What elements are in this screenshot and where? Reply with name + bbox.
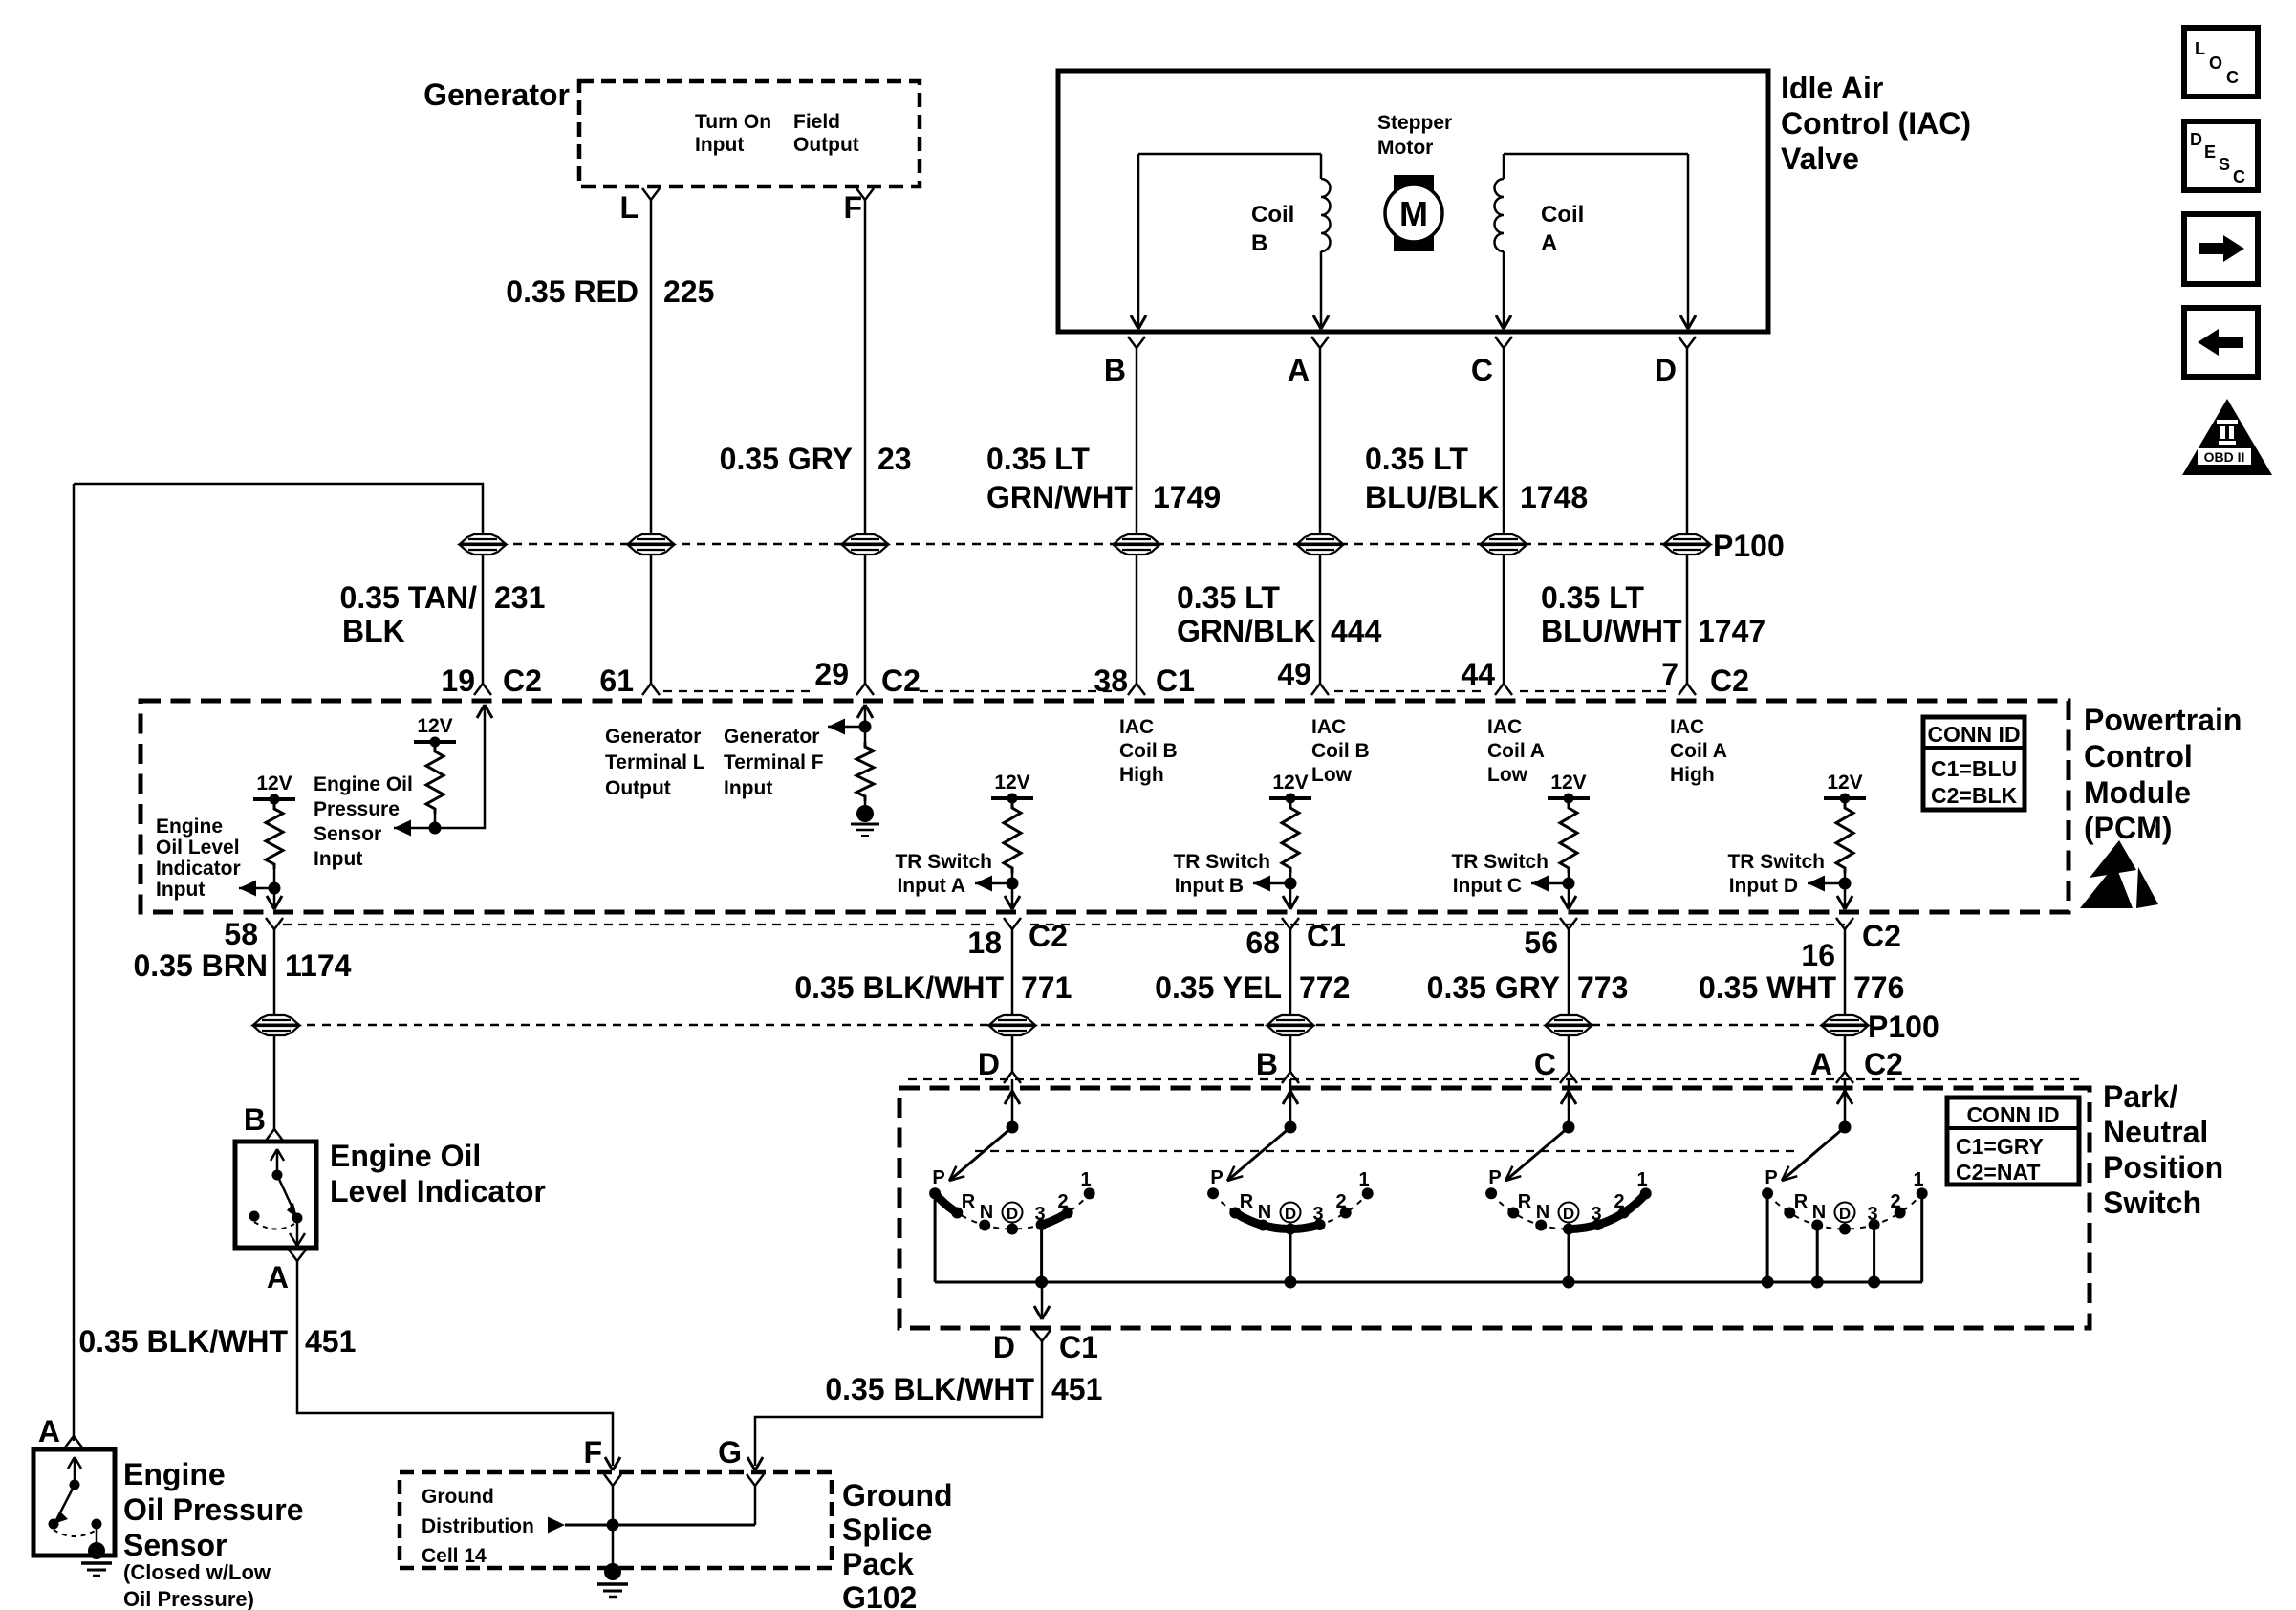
coil A top wire xyxy=(1504,153,1688,156)
svg-text:7: 7 xyxy=(1661,657,1679,691)
rotary switch B (pin 68) xyxy=(1207,1079,1374,1289)
svg-text:F: F xyxy=(843,190,862,225)
12V rail (pressure sensor pull-up) xyxy=(414,715,456,748)
svg-text:Engine Oil: Engine Oil xyxy=(314,773,413,795)
svg-text:12V: 12V xyxy=(417,715,452,737)
svg-text:C2: C2 xyxy=(1710,664,1749,698)
svg-text:68: 68 xyxy=(1245,925,1280,960)
junction TR switch input C xyxy=(1563,878,1575,890)
arrow TR Switch Input B xyxy=(1253,876,1270,892)
svg-text:0.35 BLK/WHT: 0.35 BLK/WHT xyxy=(78,1324,288,1359)
svg-text:2: 2 xyxy=(1057,1191,1068,1212)
svg-text:Ground: Ground xyxy=(422,1486,494,1508)
internal ground (terminal F) xyxy=(851,805,879,836)
svg-text:Position: Position xyxy=(2103,1150,2223,1185)
svg-text:High: High xyxy=(1119,764,1164,786)
svg-text:N: N xyxy=(1536,1202,1549,1223)
fork PNP pin C xyxy=(1560,1072,1577,1083)
svg-text:IAC: IAC xyxy=(1670,716,1704,738)
svg-text:19: 19 xyxy=(441,664,475,698)
svg-text:0.35 GRY: 0.35 GRY xyxy=(720,442,853,476)
arrow TR Switch Input C xyxy=(1531,876,1549,892)
svg-text:0.35 BRN: 0.35 BRN xyxy=(134,948,269,983)
svg-text:TR Switch: TR Switch xyxy=(1451,851,1549,873)
wire to terminal F arrow xyxy=(828,726,865,729)
svg-text:Oil Pressure: Oil Pressure xyxy=(123,1492,304,1527)
svg-text:49: 49 xyxy=(1277,657,1311,691)
coil A right wire xyxy=(1687,154,1690,326)
wire oil level pull-up to pin 58 xyxy=(273,869,276,909)
coil A left wire xyxy=(1503,251,1505,326)
svg-text:C2: C2 xyxy=(1029,919,1068,953)
arrowhead down to pin 58 xyxy=(267,896,282,909)
svg-text:BLU/WHT: BLU/WHT xyxy=(1541,614,1682,648)
svg-text:Input C: Input C xyxy=(1453,875,1522,897)
svg-text:C1=GRY: C1=GRY xyxy=(1956,1134,2044,1159)
svg-text:12V: 12V xyxy=(256,772,292,794)
svg-text:3: 3 xyxy=(1867,1204,1877,1225)
icon LOC xyxy=(2184,28,2258,97)
svg-text:R: R xyxy=(1518,1191,1532,1212)
connector P100 pass-through (circuit 1748) xyxy=(1481,534,1527,555)
wire to oil level input arrow xyxy=(239,887,274,890)
svg-text:231: 231 xyxy=(494,580,545,615)
12V rail (TR input B pull-up) xyxy=(1269,772,1311,804)
wire 451 BLK/WHT (PNP D to G102 G) xyxy=(755,1341,1042,1466)
svg-text:Oil Level: Oil Level xyxy=(156,837,240,859)
svg-text:Pressure: Pressure xyxy=(314,798,400,820)
indicator internal switch xyxy=(249,1149,306,1246)
wire to TR input B arrow xyxy=(1253,882,1290,885)
12V rail (oil level pull-up) xyxy=(253,772,295,805)
svg-text:N: N xyxy=(1258,1202,1271,1223)
fork G102 terminal F xyxy=(604,1474,621,1486)
svg-text:56: 56 xyxy=(1524,925,1558,960)
svg-text:P: P xyxy=(1765,1167,1777,1188)
svg-text:3: 3 xyxy=(1591,1204,1601,1225)
svg-text:61: 61 xyxy=(599,664,634,698)
junction pressure sensor input xyxy=(429,822,442,835)
wire 231 TAN/BLK upper run xyxy=(74,484,483,685)
ground xyxy=(81,1542,112,1576)
park/neutral position switch box xyxy=(899,1088,2090,1328)
wire 776 WHT (pin 16 to PNP A) xyxy=(1844,929,1847,1073)
connector P100 pass-through (circuit 444) xyxy=(1297,534,1343,555)
svg-text:(Closed w/Low: (Closed w/Low xyxy=(123,1560,271,1584)
fork pin 16 xyxy=(1836,918,1853,929)
P100 connector dashed line (row 2) xyxy=(276,1024,1850,1027)
svg-text:M: M xyxy=(1399,194,1428,233)
fork pin 29 xyxy=(856,684,874,695)
svg-text:C1=BLU: C1=BLU xyxy=(1931,756,2017,781)
coil A inductor lead xyxy=(1503,154,1505,179)
fork pin 18 xyxy=(1004,918,1021,929)
pressure sensor internal switch xyxy=(49,1457,102,1545)
P100 connector dashed line (row 1) xyxy=(483,543,1694,546)
svg-text:Coil B: Coil B xyxy=(1119,740,1178,762)
svg-text:12V: 12V xyxy=(1550,772,1586,794)
svg-text:BLU/BLK: BLU/BLK xyxy=(1365,480,1499,514)
svg-text:225: 225 xyxy=(663,274,714,309)
splice wire xyxy=(565,1524,755,1527)
svg-text:C1: C1 xyxy=(1059,1330,1098,1364)
junction TR switch input B xyxy=(1285,878,1297,890)
svg-text:P100: P100 xyxy=(1713,529,1785,563)
fork pin 19 xyxy=(474,684,491,695)
wire 1174 BRN (pin 58 to indicator B) xyxy=(273,929,276,1130)
svg-text:1749: 1749 xyxy=(1153,480,1221,514)
fork PNP pin D xyxy=(1004,1072,1021,1083)
fork PNP pin A xyxy=(1836,1072,1853,1083)
arrowhead down TR A xyxy=(1005,896,1020,909)
svg-text:Park/: Park/ xyxy=(2103,1079,2177,1114)
svg-text:Idle Air: Idle Air xyxy=(1781,71,1883,105)
connector P100 pass-through (circuit 771) xyxy=(989,1015,1035,1035)
svg-text:P: P xyxy=(1210,1167,1223,1188)
svg-text:Cell 14: Cell 14 xyxy=(422,1545,487,1567)
wire pin 29 into PCM xyxy=(864,707,867,742)
svg-text:P100: P100 xyxy=(1868,1010,1939,1044)
svg-text:Valve: Valve xyxy=(1781,141,1859,176)
junction terminal F input xyxy=(859,721,872,733)
svg-text:Ground: Ground xyxy=(842,1478,953,1512)
svg-text:D: D xyxy=(2190,130,2202,149)
svg-text:Input A: Input A xyxy=(897,875,965,897)
svg-text:TR Switch: TR Switch xyxy=(895,851,992,873)
svg-text:0.35 LT: 0.35 LT xyxy=(1177,580,1280,615)
fork pin 44 xyxy=(1495,684,1512,695)
wire 1747 LT BLU/WHT (D to pin 7) xyxy=(1686,348,1689,685)
svg-text:Input B: Input B xyxy=(1175,875,1244,897)
svg-text:CONN ID: CONN ID xyxy=(1927,722,2020,747)
engine oil pressure sensor box xyxy=(33,1449,115,1556)
svg-text:Input: Input xyxy=(695,134,744,156)
svg-text:P: P xyxy=(932,1167,944,1188)
svg-text:776: 776 xyxy=(1853,970,1904,1005)
ground distribution box xyxy=(400,1472,832,1568)
connector P100 pass-through (circuit 23) xyxy=(842,534,888,555)
fork terminal F xyxy=(856,188,874,200)
inductor coil A xyxy=(1495,179,1505,251)
splice junction xyxy=(607,1519,619,1532)
arrowhead down into G102 G xyxy=(747,1457,763,1470)
svg-text:Distribution: Distribution xyxy=(422,1515,534,1537)
icon arrow left xyxy=(2184,308,2258,377)
arrow TR Switch Input A xyxy=(975,876,992,892)
svg-text:C2: C2 xyxy=(1864,1047,1903,1081)
resistor oil level pull-up xyxy=(266,804,283,869)
svg-text:Indicator: Indicator xyxy=(156,858,241,880)
junction TR switch input D xyxy=(1839,878,1852,890)
fork terminal L xyxy=(642,188,660,200)
wire G to splice xyxy=(754,1486,757,1525)
wire resistor to junction xyxy=(434,814,437,828)
svg-text:Coil: Coil xyxy=(1251,202,1294,228)
svg-text:Coil: Coil xyxy=(1541,202,1584,228)
svg-text:444: 444 xyxy=(1331,614,1382,648)
icon arrow right xyxy=(2184,214,2258,284)
svg-text:Switch: Switch xyxy=(2103,1186,2201,1220)
fork indicator terminal A xyxy=(289,1250,306,1261)
fork pressure sensor terminal A xyxy=(65,1436,82,1447)
wire to TR input D arrow xyxy=(1808,882,1845,885)
arrow into IAC common (coil A right) xyxy=(1680,315,1696,329)
svg-text:C: C xyxy=(1534,1047,1556,1081)
svg-text:3: 3 xyxy=(1312,1204,1323,1225)
resistor TR input D pull-up xyxy=(1836,803,1853,873)
fork IAC pin C xyxy=(1495,337,1512,348)
wire 1748 LT BLU/BLK (C to pin 44) xyxy=(1503,348,1505,685)
engine oil level indicator box xyxy=(235,1142,316,1248)
svg-text:772: 772 xyxy=(1299,970,1350,1005)
wire 444 LT GRN/BLK (A to pin 49) xyxy=(1319,348,1322,685)
svg-text:1748: 1748 xyxy=(1520,480,1588,514)
svg-text:C: C xyxy=(2233,167,2245,186)
svg-text:P: P xyxy=(1488,1167,1501,1188)
svg-text:Control: Control xyxy=(2084,739,2193,773)
resistor TR input A pull-up xyxy=(1004,803,1021,873)
svg-text:L: L xyxy=(2195,39,2205,58)
svg-text:Sensor: Sensor xyxy=(123,1528,227,1562)
rotary switch C (pin 56) xyxy=(1485,1079,1652,1289)
svg-text:1174: 1174 xyxy=(285,948,352,983)
connector P100 pass-through (circuit 773) xyxy=(1546,1015,1592,1035)
wire 451 BLK/WHT (indicator A to G102 F) xyxy=(297,1261,613,1466)
junction oil level indicator input xyxy=(269,882,281,895)
arrowhead down TR C xyxy=(1561,896,1576,909)
gang dashed line (switch linkage) xyxy=(975,1150,1794,1152)
wire to TR input C arrow xyxy=(1531,882,1569,885)
svg-text:38: 38 xyxy=(1094,664,1128,698)
svg-text:D: D xyxy=(1563,1205,1574,1223)
coil B top wire xyxy=(1138,153,1321,156)
svg-text:GRN/BLK: GRN/BLK xyxy=(1177,614,1316,648)
svg-text:B: B xyxy=(1104,353,1126,387)
svg-text:R: R xyxy=(1240,1191,1254,1212)
svg-text:0.35 TAN/: 0.35 TAN/ xyxy=(340,580,478,615)
svg-text:A: A xyxy=(1810,1047,1832,1081)
ground xyxy=(597,1563,628,1597)
pin row dashed line 49-44 xyxy=(1334,690,1487,692)
coil B right wire xyxy=(1320,251,1323,326)
svg-text:C2: C2 xyxy=(1862,919,1901,953)
arrowhead up into pin 29 xyxy=(857,705,873,718)
wire 225 RED (L to pin 61) xyxy=(650,200,653,685)
svg-text:0.35 LT: 0.35 LT xyxy=(986,442,1090,476)
fork pin 68 xyxy=(1282,918,1299,929)
svg-text:L: L xyxy=(619,190,639,225)
svg-text:Input: Input xyxy=(724,777,772,799)
arrowhead down into G102 F xyxy=(605,1457,620,1470)
fork PNP pin B xyxy=(1282,1072,1299,1083)
svg-text:Engine: Engine xyxy=(123,1457,226,1491)
svg-text:C1: C1 xyxy=(1307,919,1346,953)
wire to pressure sensor input arrow xyxy=(394,827,435,830)
svg-text:12V: 12V xyxy=(994,772,1029,794)
svg-text:0.35 RED: 0.35 RED xyxy=(506,274,639,309)
fork G102 terminal G xyxy=(747,1474,764,1486)
arrowhead down TR B xyxy=(1283,896,1298,909)
svg-text:TR Switch: TR Switch xyxy=(1173,851,1270,873)
powertrain control module (PCM) box xyxy=(141,701,2069,912)
svg-text:Output: Output xyxy=(605,777,671,799)
wire 23 GRY (F to pin 29) xyxy=(864,200,867,685)
svg-text:Powertrain: Powertrain xyxy=(2084,703,2242,737)
svg-text:C2: C2 xyxy=(881,664,921,698)
coil B inductor lead xyxy=(1320,154,1323,179)
svg-text:Module: Module xyxy=(2084,775,2191,810)
arrowhead down PNP output D xyxy=(1034,1306,1050,1319)
CONN ID table (PCM) xyxy=(1923,717,2025,810)
svg-text:G102: G102 xyxy=(842,1580,917,1610)
rotary switch D (pin 18) xyxy=(929,1079,1095,1289)
wire resistor to internal ground xyxy=(864,801,867,808)
12V rail (TR input A pull-up) xyxy=(991,772,1033,804)
pin row dashed line 44-7 xyxy=(1520,690,1671,692)
svg-text:Terminal F: Terminal F xyxy=(724,751,824,773)
svg-text:B: B xyxy=(244,1102,266,1137)
svg-text:Engine: Engine xyxy=(156,816,223,838)
arrow Engine Oil Pressure Sensor Input xyxy=(394,820,411,837)
svg-text:IAC: IAC xyxy=(1487,716,1522,738)
wire TR B pull-up to pin xyxy=(1289,873,1292,909)
arrowhead up into pin 19 xyxy=(477,705,492,718)
svg-text:D: D xyxy=(978,1047,1000,1081)
idle air control valve box xyxy=(1058,71,1768,332)
arrow Generator Terminal F Input xyxy=(828,719,845,735)
svg-text:GRN/WHT: GRN/WHT xyxy=(986,480,1133,514)
junction TR switch input A xyxy=(1007,878,1019,890)
svg-text:D: D xyxy=(1839,1205,1851,1223)
stepper motor M xyxy=(1385,175,1442,251)
svg-text:58: 58 xyxy=(224,917,258,951)
svg-text:D: D xyxy=(1007,1205,1018,1223)
arrow into IAC common (coil B right) xyxy=(1313,315,1329,329)
svg-text:Generator: Generator xyxy=(605,726,701,748)
svg-text:44: 44 xyxy=(1461,657,1495,691)
svg-text:N: N xyxy=(980,1202,993,1223)
svg-text:Coil B: Coil B xyxy=(1311,740,1370,762)
fork PNP pin D C1 xyxy=(1033,1330,1051,1341)
svg-text:Input: Input xyxy=(314,848,362,870)
svg-text:Turn On: Turn On xyxy=(695,111,771,133)
wire TR A pull-up to pin xyxy=(1011,873,1014,909)
arrow Engine Oil Level Indicator Input xyxy=(239,881,256,897)
connector P100 pass-through (circuit 1747) xyxy=(1664,534,1710,555)
svg-text:N: N xyxy=(1812,1202,1826,1223)
arrowhead down TR D xyxy=(1837,896,1852,909)
resistor TR input B pull-up xyxy=(1282,803,1299,873)
svg-text:2: 2 xyxy=(1890,1191,1900,1212)
svg-text:BLK: BLK xyxy=(342,614,405,648)
fork IAC pin A xyxy=(1311,337,1329,348)
rotary switch A (pin 16) xyxy=(1762,1079,1928,1289)
svg-text:451: 451 xyxy=(1051,1372,1102,1406)
svg-text:D: D xyxy=(1655,353,1677,387)
generator box xyxy=(579,81,920,186)
svg-text:Neutral: Neutral xyxy=(2103,1115,2208,1149)
ESD sensitive device symbol xyxy=(2080,840,2158,908)
svg-text:0.35 YEL: 0.35 YEL xyxy=(1155,970,1282,1005)
svg-text:Input D: Input D xyxy=(1729,875,1798,897)
svg-text:0.35 GRY: 0.35 GRY xyxy=(1427,970,1560,1005)
wire F to splice xyxy=(612,1486,615,1568)
12V rail (TR input D pull-up) xyxy=(1824,772,1866,804)
svg-text:Field: Field xyxy=(793,111,840,133)
PNP pin row dashed line xyxy=(908,1078,2084,1080)
svg-text:A: A xyxy=(267,1260,289,1295)
svg-text:2: 2 xyxy=(1614,1191,1624,1212)
12V rail (TR input C pull-up) xyxy=(1548,772,1590,804)
svg-text:Low: Low xyxy=(1311,764,1353,786)
svg-text:Coil A: Coil A xyxy=(1487,740,1545,762)
svg-text:Motor: Motor xyxy=(1377,137,1433,159)
icon OBD II triangle xyxy=(2182,399,2272,475)
CONN ID table (PNP) xyxy=(1947,1098,2079,1185)
svg-text:771: 771 xyxy=(1021,970,1072,1005)
svg-text:451: 451 xyxy=(305,1324,356,1359)
svg-text:Terminal L: Terminal L xyxy=(605,751,705,773)
svg-text:2: 2 xyxy=(1335,1191,1346,1212)
svg-text:Coil A: Coil A xyxy=(1670,740,1727,762)
svg-text:A: A xyxy=(38,1414,60,1448)
arrow into IAC common (coil B left) xyxy=(1131,315,1146,329)
fork pin 61 xyxy=(642,684,660,695)
connector P100 pass-through (circuit 772) xyxy=(1267,1015,1313,1035)
svg-text:O: O xyxy=(2209,54,2222,73)
fork pin 58 xyxy=(266,918,283,929)
inductor coil B xyxy=(1321,179,1331,251)
svg-text:G: G xyxy=(718,1435,742,1469)
svg-text:S: S xyxy=(2219,155,2230,174)
svg-text:R: R xyxy=(1794,1191,1809,1212)
wire to TR input A arrow xyxy=(975,882,1012,885)
pin row dashed line 18-16 xyxy=(1030,924,1845,925)
wire TR C pull-up to pin xyxy=(1568,873,1570,909)
svg-text:Control (IAC): Control (IAC) xyxy=(1781,106,1971,141)
svg-text:Engine Oil: Engine Oil xyxy=(330,1139,481,1173)
resistor TR input C pull-up xyxy=(1560,803,1577,873)
fork pin 49 xyxy=(1311,684,1329,695)
svg-text:Stepper: Stepper xyxy=(1377,112,1452,134)
svg-text:E: E xyxy=(2204,142,2216,162)
svg-text:B: B xyxy=(1256,1047,1278,1081)
svg-text:12V: 12V xyxy=(1827,772,1862,794)
svg-text:D: D xyxy=(1285,1205,1296,1223)
svg-text:Level Indicator: Level Indicator xyxy=(330,1174,546,1208)
svg-text:F: F xyxy=(583,1435,602,1469)
svg-text:High: High xyxy=(1670,764,1715,786)
resistor terminal F load xyxy=(856,742,874,801)
svg-text:Sensor: Sensor xyxy=(314,823,381,845)
pin row dashed line 61-29 xyxy=(663,690,811,692)
fork indicator terminal B xyxy=(266,1129,283,1141)
svg-text:1: 1 xyxy=(1913,1169,1923,1190)
svg-text:TR Switch: TR Switch xyxy=(1727,851,1825,873)
svg-text:R: R xyxy=(962,1191,976,1212)
wire pin19 to pressure-sensor pull-up xyxy=(435,707,485,828)
arrow into IAC common (coil A left) xyxy=(1496,315,1511,329)
coil B left wire xyxy=(1137,154,1140,326)
wire 773 GRY (pin 56 to PNP C) xyxy=(1568,929,1570,1073)
wire 451 from bus to PNP pin D xyxy=(1041,1282,1044,1319)
svg-text:Output: Output xyxy=(793,134,859,156)
svg-text:3: 3 xyxy=(1034,1204,1045,1225)
svg-text:1: 1 xyxy=(1080,1169,1091,1190)
svg-text:29: 29 xyxy=(814,657,849,691)
svg-text:773: 773 xyxy=(1577,970,1628,1005)
svg-text:0.35 BLK/WHT: 0.35 BLK/WHT xyxy=(794,970,1004,1005)
